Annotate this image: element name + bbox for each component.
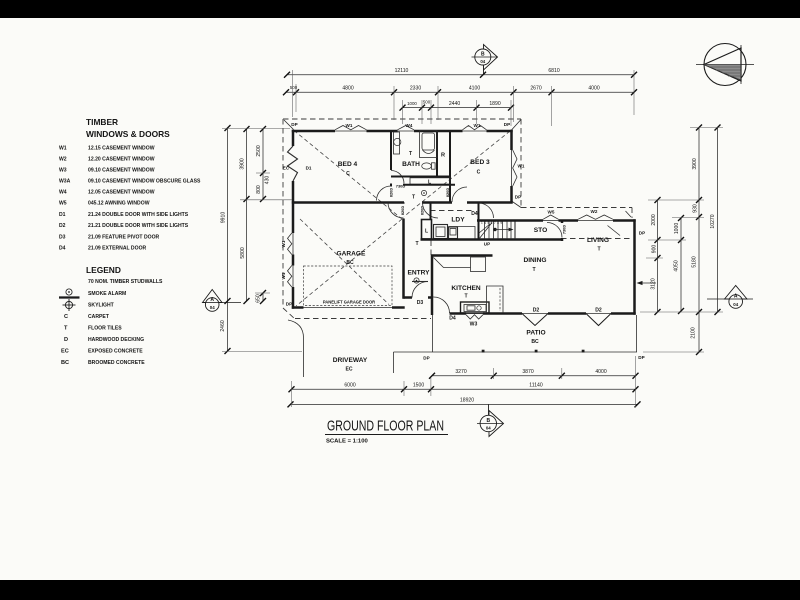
svg-text:EXPOSED CONCRETE: EXPOSED CONCRETE [88,349,143,355]
dimension right colD 10270 [710,125,721,316]
legend row D2 [59,223,189,229]
legend row D4 [59,246,147,252]
legend row D3 [59,235,160,241]
svg-text:D: D [64,337,68,343]
door arc kitchen D4 [434,297,450,313]
svg-text:930: 930 [693,204,699,213]
legend row BC broomed concrete [61,360,145,366]
svg-text:5800: 5800 [240,247,246,258]
window W1 garage upper [288,233,294,255]
svg-text:BC: BC [61,360,69,366]
svg-text:21.21 DOUBLE DOOR WITH SIDE LI: 21.21 DOUBLE DOOR WITH SIDE LIGHTS [88,223,189,229]
svg-text:DP: DP [291,122,297,127]
section marker A/04 left [203,290,242,312]
garage door threshold [304,307,393,309]
laundry washer [434,225,448,239]
svg-text:BED 4: BED 4 [338,161,358,168]
svg-text:A: A [210,297,214,303]
section arrow into living wall [637,281,657,285]
svg-text:D2: D2 [59,223,66,229]
kitchen fridge recess [487,286,504,313]
wall bath/robe divider [436,131,438,177]
kitchen top wall [431,254,493,257]
svg-text:820D: 820D [420,206,425,215]
svg-text:21.24 DOUBLE DOOR WITH SIDE LI: 21.24 DOUBLE DOOR WITH SIDE LIGHTS [88,212,189,218]
room label DRIVEWAY [333,357,368,373]
wall robe/bed3 divider [449,131,451,202]
left extension lines [222,129,302,352]
svg-text:21.09 FEATURE PIVOT DOOR: 21.09 FEATURE PIVOT DOOR [88,235,160,241]
wall east living [633,219,636,314]
dimension left colC 2500/430/800/650 [256,126,271,304]
svg-text:W3: W3 [59,168,67,174]
window W4 bath north [398,126,415,132]
svg-text:W1: W1 [474,123,481,128]
section marker B/04 top [472,45,498,76]
svg-text:12.05 CASEMENT WINDOW: 12.05 CASEMENT WINDOW [88,190,155,196]
svg-text:UP: UP [484,242,490,247]
svg-text:C: C [64,314,68,320]
svg-text:820D: 820D [389,188,394,197]
dimension row1 12110/6810 [284,68,637,78]
svg-text:W2: W2 [59,157,67,163]
svg-text:T: T [64,326,68,332]
svg-text:D4: D4 [449,316,456,322]
wall west bed4 [292,130,295,202]
label W1 garage lower rotated [281,272,286,279]
legend row C carpet [64,314,110,320]
svg-text:DP: DP [638,355,644,360]
room label BATH [402,151,420,168]
svg-text:2440: 2440 [449,101,460,107]
room label LIVING [587,237,609,253]
kitchen island bench with sink [461,302,490,313]
svg-text:500: 500 [423,99,431,104]
door arc rear D4 [479,203,494,218]
svg-text:2100: 2100 [691,327,697,338]
svg-text:4100: 4100 [469,86,480,92]
svg-text:GARAGE: GARAGE [337,251,367,258]
svg-text:W1: W1 [518,164,525,169]
svg-text:W1: W1 [59,146,67,152]
legend row EC exposed concrete [61,349,143,355]
wall stair west [478,203,480,240]
window W5 [543,215,559,221]
label W1 east [518,164,525,169]
svg-text:FLOOR TILES: FLOOR TILES [88,326,122,332]
eave outline left [282,119,284,308]
svg-text:BATH: BATH [402,161,420,168]
svg-text:045.12 AWNING WINDOW: 045.12 AWNING WINDOW [88,201,150,207]
svg-text:D3: D3 [59,235,66,241]
door arc bath [391,171,404,184]
svg-text:DP: DP [515,195,521,200]
smoke alarm hall [421,190,426,195]
svg-text:3870: 3870 [522,369,533,375]
svg-text:DP: DP [423,356,429,361]
legend row D1 [59,212,189,218]
svg-text:2330: 2330 [410,86,421,92]
svg-text:D4: D4 [59,246,66,252]
svg-text:12110: 12110 [395,68,409,74]
svg-text:L: L [425,229,428,235]
svg-text:10270: 10270 [710,214,716,228]
svg-text:CARPET: CARPET [88,314,110,320]
door D3 leaf and arc [412,282,428,298]
svg-text:W4: W4 [406,123,413,128]
svg-text:11140: 11140 [529,383,543,389]
svg-text:W5: W5 [59,201,67,207]
svg-text:04: 04 [733,302,738,307]
wall bath west [390,131,392,187]
roof diagonal garage b [300,219,389,305]
label DP garage sw [286,302,292,307]
label W1 bed3 [474,123,481,128]
corridor east wall upper [430,203,432,220]
svg-text:730D: 730D [562,225,567,234]
svg-text:SCALE = 1:100: SCALE = 1:100 [326,439,368,445]
legend row W2 [59,157,155,163]
label EC door [283,166,290,171]
dimension right colB 1000/4050 [674,215,685,314]
wall sto east [561,220,564,241]
wall stub entry/kitchen [431,297,434,316]
right extension lines [640,128,723,353]
dimension row3 1000/500/2440/1890 [400,99,515,110]
window W1 bed3 north [463,126,487,132]
stair winder diagonals [479,223,492,240]
svg-text:D2: D2 [595,307,602,313]
svg-text:R: R [441,153,445,159]
svg-text:650: 650 [256,294,262,303]
label 820D ldy door [420,206,425,215]
svg-text:SKYLIGHT: SKYLIGHT [88,303,115,309]
label DP living ne [639,231,645,236]
patio west edge [432,315,434,352]
label DP nw [291,122,297,127]
svg-text:DP: DP [639,231,645,236]
smoke alarm entry [414,278,419,283]
door arc bed4 [377,186,392,201]
window W1 bed3 east [512,150,518,186]
label W1 bed4 [346,123,353,128]
stair tread numbers [481,221,504,225]
svg-text:430: 430 [265,176,271,185]
svg-text:ENTRY: ENTRY [407,270,430,277]
label D2 right [595,307,602,313]
svg-text:09.10 CASEMENT WINDOW OBSCURE: 09.10 CASEMENT WINDOW OBSCURE GLASS [88,179,201,185]
wall laundry/stair south [421,238,564,241]
svg-text:SMOKE ALARM: SMOKE ALARM [88,291,126,297]
svg-text:TIMBER: TIMBER [86,117,118,127]
svg-text:C: C [477,170,481,176]
svg-text:4800: 4800 [342,86,353,92]
svg-text:2670: 2670 [530,86,541,92]
label W3 [470,322,478,328]
legend symbol skylight [63,299,115,311]
window W1 bed4 north [335,126,367,132]
svg-text:820D: 820D [400,206,405,215]
svg-text:DINING: DINING [523,257,546,264]
label 820D bed3 door [445,188,450,197]
room label ENTRY [407,270,430,277]
svg-text:HARDWOOD DECKING: HARDWOOD DECKING [88,337,144,343]
wall garage east [402,203,405,299]
svg-text:W5: W5 [548,210,555,215]
svg-text:04: 04 [480,59,485,64]
svg-text:1000: 1000 [407,101,417,106]
label W2 [591,209,598,214]
legend row T floor tiles [64,326,122,332]
wall north bed block [292,130,513,133]
door arc sto [547,223,562,238]
svg-text:18920: 18920 [460,398,474,404]
kitchen west wall [431,255,434,298]
label 730D sto [562,225,567,234]
svg-text:1500: 1500 [413,383,424,389]
svg-text:STO: STO [534,227,547,234]
door D2 right bifold [586,314,611,326]
svg-text:820D: 820D [445,188,450,197]
driveway left kerb curve [288,320,304,377]
svg-text:B: B [486,418,490,424]
stair direction arrow [493,228,513,232]
room label PATIO [526,330,545,346]
svg-text:730D: 730D [396,183,406,188]
door D1 sidelight zigzag [288,146,298,181]
section marker B/04 bottom [477,404,504,437]
svg-text:KITCHEN: KITCHEN [451,285,481,292]
patio and path edge [394,351,638,353]
wall south bed block / hall [292,201,513,204]
room label BED 4 [338,161,358,177]
svg-text:W3: W3 [470,322,478,328]
svg-text:B: B [481,52,485,58]
window W2 [578,215,613,221]
label W5 [548,210,555,215]
door arc garage access [388,203,404,219]
svg-text:21.09 EXTERNAL DOOR: 21.09 EXTERNAL DOOR [88,246,147,252]
svg-text:500: 500 [290,85,298,90]
svg-text:800: 800 [256,185,262,194]
dimension left colB 3900/5800 [240,126,250,304]
svg-text:D1: D1 [306,166,312,171]
legend row W5 [59,201,150,207]
dimension right colC 3900/930/5180/2100 [691,125,703,356]
patio east edge [636,315,638,352]
wall south living/dining [450,312,636,315]
label DP ne bed block [504,122,510,127]
label W4 [406,123,413,128]
label 730D [396,183,406,188]
panelift garage door dashed zone [304,266,393,306]
dimension right colA 2000/900/3120 [651,197,661,315]
label D3 [417,300,424,306]
svg-text:3270: 3270 [455,369,466,375]
dimension left colA 9910/2460 [220,125,231,354]
label T hall [412,195,416,201]
svg-text:DP: DP [504,122,510,127]
path west edge [393,352,395,373]
toilet [422,163,435,169]
room label STO [534,227,547,234]
svg-text:BC: BC [531,339,539,345]
window W1 garage lower [288,266,294,288]
svg-text:W1: W1 [281,272,286,279]
svg-text:09.10 CASEMENT WINDOW: 09.10 CASEMENT WINDOW [88,168,155,174]
svg-text:L: L [428,179,431,185]
svg-text:LIVING: LIVING [587,237,609,244]
svg-text:6000: 6000 [344,383,355,389]
title GROUND FLOOR PLAN [325,419,448,445]
label D4 kitchen [449,316,456,322]
svg-text:12.20 CASEMENT WINDOW: 12.20 CASEMENT WINDOW [88,157,155,163]
svg-text:EC: EC [345,367,352,373]
roof hip stub SE bed3 [512,201,522,208]
svg-text:1000: 1000 [674,223,680,234]
roof diagonal over bed3 [404,131,510,217]
legend row W3A [59,179,201,185]
wall stair east [514,221,516,239]
dimension rowA 3270/3870/4000 [429,369,639,379]
legend row D hardwood decking [64,337,144,343]
eave outline living lower [561,238,632,240]
svg-text:5180: 5180 [692,256,698,267]
wall garage south [292,306,405,309]
label UP [484,242,490,247]
svg-text:W1: W1 [281,240,286,247]
legend heading LEGEND [86,265,121,275]
svg-text:04: 04 [210,305,215,310]
svg-text:PATIO: PATIO [526,330,545,337]
door arc bed3 [452,187,467,202]
svg-text:GROUND FLOOR PLAN: GROUND FLOOR PLAN [327,419,444,435]
bath tub [420,131,438,158]
laundry tub [449,227,458,239]
eave outline garage corner diagonal [283,308,295,319]
svg-text:W1: W1 [346,123,353,128]
eave outline ldy segment [430,210,472,212]
svg-text:4050: 4050 [674,260,680,271]
room label KITCHEN [451,285,481,300]
label 820D bed4 door [389,188,394,197]
legend heading TIMBER WINDOWS & DOORS [86,117,170,139]
laundry bench [449,227,476,240]
eave outline kitchen segment [430,241,432,256]
svg-text:W4: W4 [59,190,67,196]
svg-text:3900: 3900 [692,158,698,169]
svg-text:W2: W2 [591,209,598,214]
svg-text:W3A: W3A [59,179,71,185]
svg-text:D3: D3 [417,300,424,306]
label D1 [306,166,312,171]
legend row W4 [59,190,155,196]
label DP patio se [638,355,644,360]
stair treads [485,222,512,240]
svg-text:D2: D2 [533,307,540,313]
svg-text:70 NOM. TIMBER STUDWALLS: 70 NOM. TIMBER STUDWALLS [88,279,163,285]
svg-text:BED 3: BED 3 [470,159,490,166]
svg-text:4000: 4000 [588,86,599,92]
legend row studwalls [88,279,163,285]
svg-text:6810: 6810 [548,68,559,74]
laundry L cupboard [422,220,432,240]
svg-text:1890: 1890 [489,101,500,107]
linen cupboard L [403,178,455,186]
svg-text:LDY: LDY [451,217,465,224]
svg-text:9910: 9910 [221,212,227,223]
label D4 rear door [471,211,478,217]
svg-text:EC: EC [61,349,69,355]
svg-text:12.15 CASEMENT WINDOW: 12.15 CASEMENT WINDOW [88,146,155,152]
svg-text:A: A [734,294,738,300]
svg-text:04: 04 [486,426,491,431]
svg-text:DP: DP [286,302,292,307]
label DP path [423,356,429,361]
svg-text:2500: 2500 [256,145,262,156]
kitchen corner bench diagonal [434,258,471,268]
svg-text:BROOMED CONCRETE: BROOMED CONCRETE [88,360,145,366]
svg-text:WINDOWS & DOORS: WINDOWS & DOORS [86,129,170,139]
dimension rowB 6000/1500/11140 [289,383,639,393]
wall entry south [404,296,433,299]
wall bath south [391,176,450,178]
north point symbol [696,44,754,86]
legend row W1 [59,146,155,152]
wall garage west [292,202,295,309]
svg-text:D1: D1 [59,212,66,218]
eave outline garage bottom [295,318,431,320]
roof hip stub NE bed3 [512,120,522,131]
eave outline top [283,118,521,120]
svg-text:D4: D4 [471,211,478,217]
legend row W3 [59,168,155,174]
kitchen pantry [471,257,486,272]
roof hip stub living NE short [626,211,632,217]
legend symbol smoke alarm [59,289,126,298]
roof diagonal garage a [296,219,402,306]
svg-text:3900: 3900 [240,158,246,169]
label T corridor [415,241,419,247]
room label DINING [523,257,546,273]
wall east bed3 [510,130,513,203]
top extension lines [293,70,635,126]
roof hip stub living NE long [608,226,621,236]
label W1 garage upper rotated [281,240,286,247]
svg-text:2000: 2000 [651,214,657,225]
eave outline rear wing [521,208,632,219]
bottom extension lines [292,356,636,407]
eave outline bed3 right [520,119,522,208]
label D2 left [533,307,540,313]
room label LDY [451,217,465,224]
room label BED 3 [470,159,490,176]
wall north living wing [477,219,636,222]
patio post markers [482,350,585,353]
section marker A/04 right [707,286,753,309]
window W3 kitchen [466,314,483,320]
svg-text:PANELIFT GARAGE DOOR: PANELIFT GARAGE DOOR [323,300,375,305]
svg-text:EC: EC [283,166,290,171]
svg-text:LEGEND: LEGEND [86,265,121,275]
roof hip stub NW [284,120,294,130]
label DP bed3 se [515,195,521,200]
svg-text:4000: 4000 [595,369,606,375]
svg-text:BC: BC [346,260,354,266]
bath vanity [394,132,401,154]
label 820D garage door [400,206,405,215]
door D2 left bifold [522,314,548,326]
